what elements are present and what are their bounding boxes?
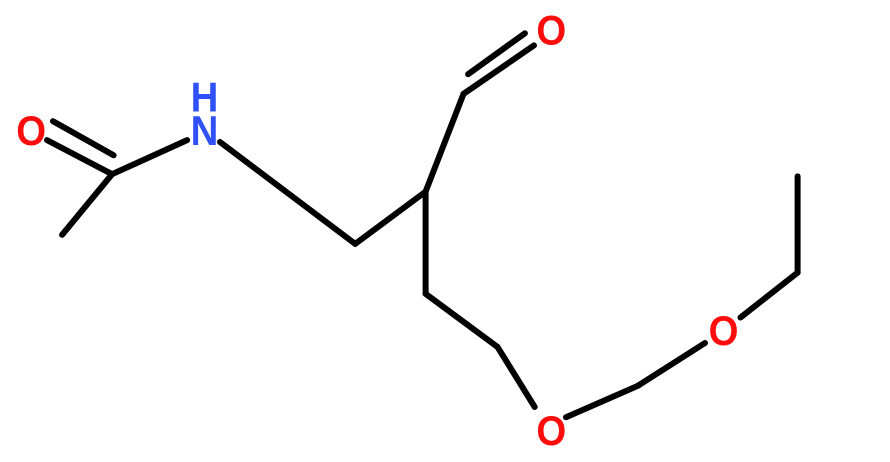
- bond O3-CH2 (ethoxy): [741, 273, 798, 318]
- bond V4-C2 (to aldehyde carbon): [426, 94, 464, 192]
- bond Cmid-O3: [638, 343, 705, 386]
- bond N-CH2-CH2 (straight chain from N to J1): [220, 142, 355, 244]
- svg-text:H: H: [191, 74, 219, 121]
- bond C2=O2 second line: [468, 33, 525, 74]
- bond J1-V4: [355, 192, 425, 244]
- svg-text:O: O: [16, 107, 46, 154]
- bond CH2-CH3 vertical (ethoxy methyl): [795, 176, 801, 272]
- bond C1=O1 second line: [53, 121, 114, 155]
- bond C1-N (amide C to N): [112, 140, 187, 174]
- bond C1-CH3 (acetyl methyl): [62, 174, 112, 235]
- bond O4-Cmid (acetal CH2): [566, 386, 638, 417]
- bond V4-V5 vertical: [423, 192, 429, 294]
- bond C1=O1 main line (amide carbonyl): [47, 140, 112, 174]
- bond V6-O4: [498, 347, 535, 407]
- svg-text:O: O: [536, 7, 566, 54]
- svg-text:O: O: [536, 407, 566, 454]
- bond V5-V6: [426, 294, 498, 347]
- svg-text:O: O: [709, 308, 739, 355]
- bond C2=O2 main line (aldehyde): [464, 45, 535, 94]
